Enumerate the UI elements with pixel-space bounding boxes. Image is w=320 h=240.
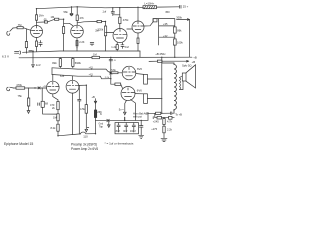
speaker SP1	[180, 76, 184, 90]
svg-text:+B: +B	[193, 55, 197, 59]
svg-text:2k: 2k	[52, 106, 55, 110]
svg-text:5v ≈: 5v ≈	[119, 108, 124, 112]
wire V8 right drop	[131, 100, 136, 121]
wire V7 plate right	[136, 73, 144, 76]
wire top B+ rail	[37, 7, 144, 9]
svg-text:2.2k: 2.2k	[167, 127, 173, 131]
svg-text:-4.5: -4.5	[89, 67, 94, 70]
resistor R15b grid V8	[111, 83, 115, 85]
resistor R25	[16, 87, 25, 89]
junction X	[107, 119, 110, 122]
capacitor C1 cathode V1	[36, 38, 38, 42]
svg-text:1M: 1M	[53, 116, 57, 120]
resistor R9	[153, 19, 157, 22]
svg-text:47k: 47k	[80, 16, 85, 20]
svg-text:+245: +245	[153, 119, 159, 123]
capacitor C12 right	[139, 120, 143, 135]
svg-text:.05: .05	[43, 17, 47, 21]
svg-text:16mf: 16mf	[130, 130, 136, 133]
wire heater drop right	[139, 51, 141, 57]
resistor R26 1M	[28, 88, 30, 98]
resistor R22	[156, 112, 161, 114]
svg-text:6J5: 6J5	[60, 74, 65, 78]
wire plate V3 to V4 grid	[127, 28, 132, 30]
resistor R18	[57, 124, 59, 131]
svg-text:8mf: 8mf	[123, 130, 127, 133]
wire V8 plate right	[135, 93, 144, 95]
resistor R27	[41, 88, 43, 101]
wire +B row2	[149, 60, 157, 62]
svg-text:300k: 300k	[176, 15, 182, 19]
svg-text:86k: 86k	[177, 29, 182, 33]
wire heater rail A	[23, 51, 141, 52]
svg-text:+B: +B	[192, 60, 196, 64]
wire V4 out to bias box	[144, 19, 159, 26]
tube V3	[113, 29, 127, 43]
svg-text:6V6: 6V6	[137, 88, 142, 92]
svg-text:+32: +32	[163, 34, 168, 38]
svg-text:110: 110	[83, 134, 88, 138]
ground G2	[161, 138, 167, 141]
svg-text:L=10H+: L=10H+	[144, 2, 154, 6]
svg-text:4.5k: 4.5k	[80, 107, 86, 111]
resistor R8 cathode V4	[137, 33, 139, 38]
capacitor C9 8mf	[117, 123, 120, 132]
tube V4	[132, 21, 144, 33]
tube V5	[47, 81, 60, 94]
capacitor C5 rail decoupling	[111, 8, 120, 16]
resistor R4 plate V2	[76, 7, 78, 15]
wire right edge drop	[189, 20, 191, 58]
resistor R10 86k	[173, 27, 176, 33]
svg-text:2M: 2M	[95, 29, 99, 33]
capacitor C2 coupling	[37, 21, 45, 23]
wire V6 grid right	[79, 84, 86, 86]
svg-text:with pot: with pot	[133, 114, 142, 118]
svg-text:1mf: 1mf	[36, 63, 41, 67]
wire B+ chain link	[147, 113, 149, 120]
wire cap branch	[78, 85, 81, 134]
tube V8 6V6	[121, 87, 135, 101]
svg-text:Spkr 5Ω: Spkr 5Ω	[182, 64, 191, 68]
resistor R7 470k plate V3	[119, 8, 121, 17]
capacitor C10 8mf	[125, 123, 128, 132]
wire plates V5 V6 top	[52, 75, 54, 82]
wire line L2	[52, 75, 111, 79]
svg-text:+175: +175	[151, 127, 157, 131]
wire rectifier to psu	[124, 117, 126, 120]
capacitor C7b ticks	[29, 50, 32, 51]
svg-text:-4.5: -4.5	[89, 74, 94, 77]
svg-text:.1f: .1f	[113, 60, 116, 62]
capacitor C6 cathode V3	[116, 42, 118, 44]
svg-text:1M+: 1M+	[39, 14, 45, 18]
svg-text:6V6: 6V6	[137, 67, 142, 71]
resistor R3 grid leak	[25, 29, 27, 42]
capacitor C4 coupling	[97, 20, 102, 22]
ground arrow G3	[27, 106, 30, 113]
svg-text:+35: +35	[163, 22, 168, 26]
PSU box	[115, 123, 139, 134]
choke L1	[143, 6, 157, 9]
capacitor C7 1mf drop	[32, 51, 35, 67]
svg-text:5.6k: 5.6k	[111, 69, 116, 72]
capacitor C14	[180, 5, 182, 8]
tube V1	[31, 26, 43, 38]
svg-text:To +B: To +B	[175, 112, 182, 116]
potentiometer VR1	[81, 132, 96, 134]
svg-text:Epiphone Model 15: Epiphone Model 15	[4, 142, 33, 146]
capacitor C11 16mf	[132, 123, 135, 132]
capacitor C2b screen	[70, 7, 73, 16]
resistor R6 grid V3	[105, 22, 107, 27]
ground arrow G4	[108, 121, 111, 128]
svg-text:1M: 1M	[93, 52, 97, 56]
connector left	[15, 51, 21, 55]
svg-text:100k: 100k	[177, 41, 183, 45]
resistor R13 82k	[59, 58, 61, 59]
svg-text:2.2K: 2.2K	[79, 40, 85, 44]
svg-text:350: 350	[165, 10, 170, 14]
svg-text:4.7k: 4.7k	[167, 119, 173, 123]
wire V5 cathode	[53, 94, 58, 102]
svg-text:6.3 V: 6.3 V	[2, 55, 9, 59]
resistor R11 100k	[173, 39, 176, 45]
ground G1	[139, 135, 144, 138]
resistor R1 1M plate V1	[36, 9, 38, 15]
svg-text:7M: 7M	[18, 23, 22, 27]
resistor R23 chain	[163, 117, 165, 120]
resistor R21	[144, 94, 148, 104]
wire vertical junction	[110, 58, 112, 85]
resistor R17	[57, 114, 59, 121]
resistor R2b	[55, 18, 59, 20]
resistor R22b	[157, 116, 162, 119]
svg-text:690k: 690k	[75, 61, 82, 65]
svg-text:470k: 470k	[16, 83, 22, 87]
capacitor C3 cathode V2	[76, 38, 78, 51]
svg-text:K: K	[100, 112, 102, 116]
input jack J2 lower	[7, 87, 14, 91]
svg-text:+B 250v: +B 250v	[155, 52, 166, 56]
junction x lower input	[38, 87, 40, 89]
transformer T1 secondary	[179, 78, 182, 90]
bias box ladder	[159, 19, 175, 45]
resistor R14 690k	[72, 58, 74, 59]
wire plate V4	[137, 7, 139, 21]
wire screen line L1	[52, 68, 111, 73]
tube V6	[66, 80, 79, 93]
tube V2	[71, 25, 84, 38]
svg-text:+4Ω: +4Ω	[145, 113, 149, 115]
resistor R16	[57, 102, 59, 110]
svg-text:Power Amp 2x 6V6: Power Amp 2x 6V6	[71, 147, 98, 151]
svg-text:56k: 56k	[64, 10, 69, 14]
resistor R24 chain	[163, 126, 165, 133]
resistor R2 grid	[13, 27, 17, 29]
svg-text:68: 68	[45, 101, 48, 105]
svg-text:1M: 1M	[51, 15, 55, 19]
transformer T1 primary	[162, 62, 174, 64]
svg-text:8.2k: 8.2k	[51, 126, 57, 130]
svg-text:1.2k: 1.2k	[111, 45, 117, 49]
svg-text:25 +: 25 +	[183, 4, 189, 8]
junction dots	[32, 6, 175, 136]
wire B+ chain top	[148, 112, 156, 114]
wire rail B	[19, 56, 192, 59]
svg-text:470k: 470k	[123, 18, 129, 22]
svg-text:+B: +B	[92, 95, 96, 99]
svg-text:75k: 75k	[18, 94, 23, 98]
tube V7 6V6	[122, 66, 136, 80]
svg-text:8mf: 8mf	[116, 130, 120, 133]
svg-text:.1uf: .1uf	[102, 9, 107, 13]
svg-text:82k: 82k	[52, 61, 57, 65]
svg-text:5mf: 5mf	[125, 45, 130, 49]
wire plate V2 coupling	[77, 22, 97, 23]
resistor R19b electrolytic	[94, 99, 96, 110]
wire	[157, 6, 180, 8]
PSU top bus	[96, 119, 149, 121]
wire V8 cathode left	[124, 100, 127, 115]
wire row2	[153, 113, 157, 118]
input jack J1	[7, 28, 13, 35]
wire V6 cathode down	[72, 93, 74, 135]
svg-text:* = 1uf or thereabouts: * = 1uf or thereabouts	[105, 141, 134, 145]
wire arrow 300k out	[177, 19, 190, 21]
resistor R5 1M grid V2	[63, 19, 65, 26]
capacitor C13	[169, 116, 172, 119]
resistor R15 5.6k	[110, 72, 112, 73]
wire vertical x162	[161, 57, 163, 113]
svg-text:Preamp 3x (6SF5): Preamp 3x (6SF5)	[71, 143, 97, 147]
resistor R20	[144, 74, 148, 84]
resistor R12 on rail	[92, 56, 100, 58]
svg-text:Tap: Tap	[99, 125, 104, 128]
resistor R19	[85, 85, 87, 104]
wire to transformer	[147, 79, 162, 99]
